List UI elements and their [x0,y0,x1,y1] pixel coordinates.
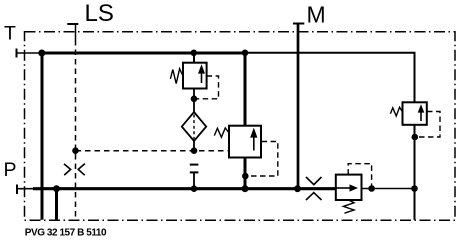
wire branch to relief valve U4 [414,102,416,105]
relief valve U1 pilot line dashed [197,76,219,99]
node T1 dot [38,50,45,57]
svg-text:LS: LS [85,0,114,27]
relief valve U4 pilot line dashed [419,112,440,138]
wire LS drop solid stub [75,24,77,40]
node P5 dot [368,185,375,192]
wire T gallery (thick) [40,52,245,55]
bleed valve U3 body [336,175,362,200]
filter F1 element dashed [193,115,195,140]
node LS1 dot [72,147,79,154]
wire LS drop dashed [75,40,77,220]
bleed valve U3 flow arrow [337,187,352,189]
wire LS gallery dashed [76,150,229,152]
port P tick [16,185,18,195]
node U2 pilot junction dot [242,173,249,180]
port T tick [16,49,18,58]
wire plug stem to P gallery [193,172,195,188]
relief valve U1 spring [170,69,183,84]
wire F1 to LS gallery [193,141,195,151]
wire P gallery (thick) [33,187,337,190]
node P6 dot [411,185,418,192]
plug orifice bars on branch to P [190,164,199,166]
compensator U2 flow arrow [253,136,255,151]
compensator U2 pilot line dashed [249,142,278,177]
wire P drop line to bottom edge [55,189,58,220]
port LS tick [67,23,78,25]
relief valve U4 spring [390,107,402,116]
wire U4 outlet down to bottom edge [414,125,416,220]
relief valve U1 flow arrow [201,72,203,83]
relief valve U4 flow arrow [420,112,422,122]
node T3 dot [242,50,249,57]
bleed valve U3 pilot line dashed [348,164,371,186]
svg-text:M: M [307,1,326,27]
svg-text:PVG 32 157 B 5110: PVG 32 157 B 5110 [25,228,107,239]
orifice O1 on LS drop [64,164,85,176]
relief valve U1 body [183,63,207,89]
node T2 dot [191,50,198,57]
port M tick [293,23,304,25]
wire U2 outlet to P gallery (thick) [244,158,247,189]
wire branch T to relief valve U1 [193,53,195,63]
node P2 dot [191,185,198,192]
wire branch T to compensator U2 (thick) [244,53,247,126]
wire T port to node T1 [17,52,42,54]
node J1 junction dot [191,96,198,103]
filter F1 diamond [182,112,206,141]
compensator U2 body [229,126,261,158]
orifice O2 on P gallery [306,177,322,200]
svg-text:T: T [4,23,16,45]
node U4 pilot junction dot [412,134,419,141]
compensator U2 spring [214,128,229,137]
wire T gallery thin extension [245,53,415,103]
wire M line [297,24,300,189]
wire P port to P gallery [17,188,34,190]
relief valve U4 body [403,102,427,125]
node P4 dot [294,185,301,192]
bleed valve U3 spring [343,200,354,213]
enclosure border (dash-dot subplate outline) [25,32,456,221]
node LS2 dot [191,147,198,154]
node P3 dot [242,185,249,192]
node P1 dot [53,185,60,192]
svg-text:P: P [4,159,17,181]
wire U3 outlet [362,188,415,190]
wire U1 outlet to node J1 [193,89,195,113]
wire T drop line to bottom edge [41,53,44,220]
